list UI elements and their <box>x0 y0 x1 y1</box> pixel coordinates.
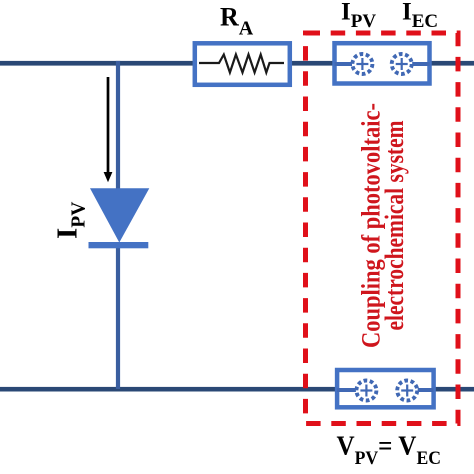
arrow current direction IPV <box>104 77 113 182</box>
red dashed coupling boundary <box>306 33 459 424</box>
lead out of top-right electrode <box>412 62 430 66</box>
bottom electrochemical cell box <box>337 370 434 407</box>
resistor R_A box <box>195 43 290 85</box>
wire left vertical branch (anode side) <box>116 61 120 191</box>
wire bottom-right segment <box>434 387 474 392</box>
electrode symbol (dotted circle with plus) bottom-left <box>356 381 376 401</box>
diode D1 cathode bar <box>89 242 149 248</box>
wire top-right segment <box>430 61 474 66</box>
lead into bottom-left electrode <box>337 388 356 392</box>
resistor R_A zigzag symbol <box>199 55 284 73</box>
label I_PV (diode current, rotated) <box>52 202 90 239</box>
lead out of bottom-right electrode <box>418 388 434 392</box>
lead into top-left electrode <box>335 62 353 66</box>
wire top-middle segment (resistor to cell box) <box>290 61 336 66</box>
caption: Coupling of photovoltaic-electrochemical system (rotated) <box>356 103 409 348</box>
wire left vertical branch (cathode side) <box>116 243 120 389</box>
wire top-left segment <box>0 61 195 66</box>
electrode symbol (dotted circle with plus) bottom-right <box>397 381 417 401</box>
diode D1 triangle <box>90 188 149 242</box>
node junction of top wire and diode branch <box>116 61 121 66</box>
svg-text:electrochemical system: electrochemical system <box>380 120 409 330</box>
electrode symbol (dotted circle with plus) top-left <box>352 54 372 74</box>
top electrochemical cell box <box>335 43 430 83</box>
wire bottom-left segment <box>0 387 338 392</box>
electrode symbol (dotted circle with plus) top-right <box>392 54 412 74</box>
